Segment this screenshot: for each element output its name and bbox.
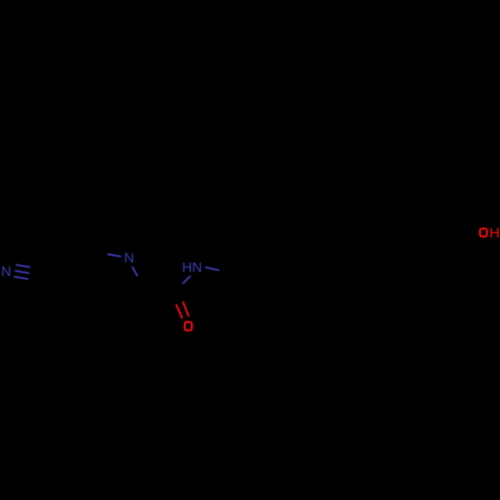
svg-text:H: H — [182, 259, 192, 275]
nitrile triple bond N1#C2 (blue halves) — [14, 265, 31, 279]
carbonyl C=O double bond (red halves) — [176, 302, 189, 319]
bond N4-C5 blue half — [132, 267, 138, 277]
svg-text:N: N — [1, 263, 11, 279]
hydroxyl OH label: blocky O — [480, 229, 487, 237]
bond N(amide)-C(chain) blue half — [205, 267, 219, 270]
svg-text:H: H — [490, 224, 500, 240]
svg-text:N: N — [192, 259, 202, 275]
bond N(amide)-C(=O) blue half — [183, 276, 191, 284]
carbonyl O label (blocky hinted O) — [185, 322, 192, 331]
bond C3-N4 blue half — [107, 254, 121, 256]
carbon skeleton (black bonds, invisible on black background) — [47, 245, 471, 305]
svg-text:N: N — [124, 249, 134, 265]
